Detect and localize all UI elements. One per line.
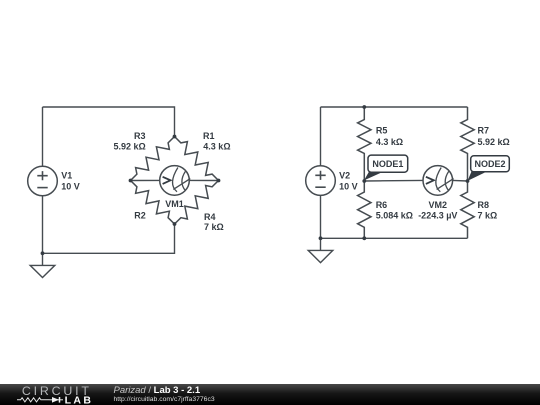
svg-text:7 kΩ: 7 kΩ (478, 211, 498, 221)
svg-text:http://circuitlab.com/c7jrffa3: http://circuitlab.com/c7jrffa3776c3 (114, 396, 215, 403)
svg-text:-224.3 µV: -224.3 µV (418, 211, 457, 221)
svg-text:NODE2: NODE2 (474, 159, 505, 169)
svg-text:LAB: LAB (65, 395, 94, 405)
svg-text:R2: R2 (134, 211, 146, 221)
svg-text:VM1: VM1 (165, 199, 184, 209)
svg-text:R1: R1 (203, 131, 215, 141)
svg-text:5.92 kΩ: 5.92 kΩ (113, 141, 145, 151)
svg-text:NODE1: NODE1 (372, 159, 403, 169)
svg-text:4.3 kΩ: 4.3 kΩ (203, 141, 230, 151)
svg-text:5.084 kΩ: 5.084 kΩ (376, 211, 413, 221)
svg-text:R6: R6 (376, 200, 388, 210)
svg-text:V1: V1 (61, 171, 72, 181)
svg-text:V2: V2 (339, 171, 350, 181)
svg-text:10 V: 10 V (339, 182, 358, 192)
svg-text:7 kΩ: 7 kΩ (204, 222, 224, 232)
svg-text:R5: R5 (376, 126, 388, 136)
svg-text:R4: R4 (204, 212, 216, 222)
svg-text:4.3 kΩ: 4.3 kΩ (376, 137, 403, 147)
svg-text:5.92 kΩ: 5.92 kΩ (478, 137, 510, 147)
svg-text:Parizad / Lab 3 - 2.1: Parizad / Lab 3 - 2.1 (114, 385, 201, 396)
svg-text:VM2: VM2 (429, 200, 448, 210)
svg-text:R8: R8 (478, 200, 490, 210)
svg-text:R3: R3 (134, 131, 146, 141)
svg-text:R7: R7 (478, 126, 490, 136)
svg-text:10 V: 10 V (61, 182, 80, 192)
